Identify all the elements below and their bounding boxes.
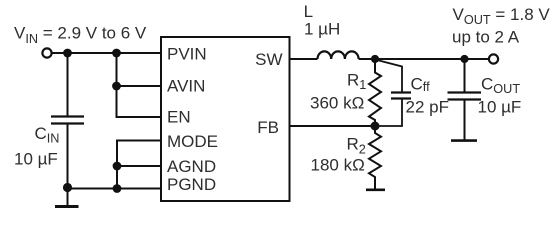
wire VOUT node to Cff top (slanted) — [377, 60, 402, 92]
wire inductor to VOUT node — [359, 58, 375, 60]
wire ground rail (CIN to PGND pin) — [68, 188, 162, 190]
IC U1 (buck converter) — [161, 37, 290, 201]
svg-text:AVIN: AVIN — [167, 77, 205, 96]
resistor R1 — [369, 59, 381, 126]
wire AGND — [117, 165, 161, 167]
svg-text:EN: EN — [167, 108, 191, 127]
svg-text:360 kΩ: 360 kΩ — [310, 94, 364, 113]
capacitor COUT — [448, 93, 482, 100]
junction dot PGND rail — [113, 184, 122, 193]
svg-text:SW: SW — [255, 50, 282, 69]
svg-text:MODE: MODE — [167, 132, 218, 151]
capacitor Cff — [391, 93, 411, 99]
junction dot FB node — [371, 122, 380, 131]
wire VIN terminal to PVIN pin — [52, 52, 161, 54]
wire COUT top — [464, 59, 466, 92]
wire MODE bus (MODE corner down through AGND to PGND rail) — [117, 141, 161, 189]
wire AVIN — [117, 85, 162, 87]
wire SW pin to inductor — [290, 58, 318, 60]
junction dot SW node (top of R1) — [371, 55, 379, 63]
svg-text:PGND: PGND — [167, 175, 216, 194]
inductor L — [318, 51, 359, 59]
capacitor CIN — [51, 117, 84, 124]
ground (COUT) — [451, 139, 477, 142]
junction dot AVIN — [112, 82, 121, 91]
wire VOUT rail (node to COUT to terminal) — [375, 58, 489, 60]
junction dot AGND — [113, 162, 122, 171]
svg-text:up to 2 A: up to 2 A — [452, 27, 520, 46]
svg-text:180 kΩ: 180 kΩ — [311, 156, 365, 175]
wire FB pin to FB node — [290, 125, 376, 127]
junction dot VIN / AVIN bus — [112, 49, 121, 58]
junction dot COUT node — [460, 55, 468, 63]
junction dot CIN / ground — [63, 183, 72, 192]
ground (R2) — [366, 189, 385, 192]
wire CIN bottom to ground rail — [67, 124, 69, 189]
wire Cff bottom to FB node — [375, 99, 402, 126]
svg-text:PVIN: PVIN — [167, 44, 207, 63]
input terminal VIN — [42, 48, 51, 57]
junction dot VIN / CIN — [63, 49, 72, 58]
svg-text:10 µF: 10 µF — [478, 97, 522, 116]
output terminal VOUT — [489, 54, 498, 63]
resistor R2 — [369, 126, 381, 189]
svg-text:L: L — [304, 2, 313, 21]
svg-text:1 µH: 1 µH — [304, 19, 340, 38]
ground (input) — [55, 192, 79, 207]
wire AVIN bus vertical (VIN node down to EN) — [117, 53, 162, 117]
wire CIN top — [67, 53, 69, 116]
svg-text:10 µF: 10 µF — [14, 150, 58, 169]
svg-text:AGND: AGND — [167, 157, 216, 176]
svg-text:22 pF: 22 pF — [406, 97, 449, 116]
wire COUT bottom to ground — [464, 100, 466, 140]
svg-text:FB: FB — [257, 118, 279, 137]
